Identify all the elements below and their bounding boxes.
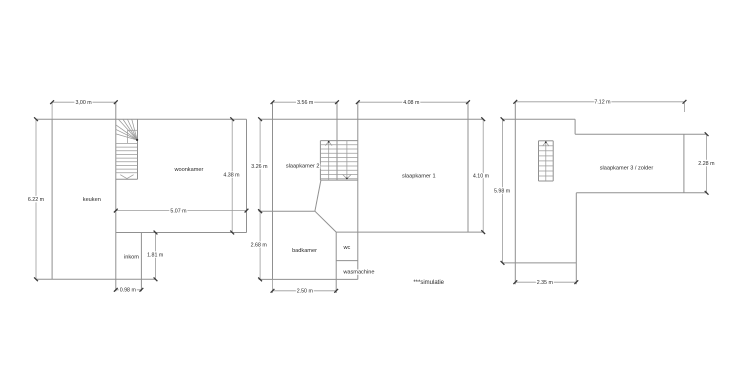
ground-floor plan: top wall — [36, 118, 247, 120]
first-floor plan: slanted stair wall — [315, 180, 321, 211]
ground-floor plan: right wall (woonkamer) — [246, 119, 248, 232]
dimension 3,00 m — [50, 100, 118, 106]
dimension 5.98 m — [494, 117, 511, 264]
svg-text:woonkamer: woonkamer — [173, 167, 203, 173]
attic plan: arm top wall — [575, 133, 707, 135]
extension line for dimension 7.12 m — [684, 103, 686, 112]
svg-text:4.08 m: 4.08 m — [403, 100, 420, 106]
svg-text:keuken: keuken — [83, 197, 101, 203]
svg-text:slaapkamer 2: slaapkamer 2 — [286, 164, 320, 170]
extension line for dimension 3,00 m — [51, 102, 53, 119]
svg-text:3.26 m: 3.26 m — [251, 164, 268, 170]
extension line for dimension 2.50 m — [272, 279, 274, 293]
first-floor plan: wc/wasmachine left wall — [335, 232, 337, 293]
attic plan: right wall — [683, 134, 685, 193]
first-floor plan: badkamer bottom wall — [259, 278, 358, 280]
first-floor plan: stairwell right wall — [357, 102, 359, 279]
first-floor plan: diagonal badkamer wall — [315, 211, 336, 232]
first-floor plan: slaapkamer2/stairwell wall — [336, 102, 338, 180]
dimension 3.26 m — [251, 117, 268, 213]
first-floor plan: wc bottom wall — [336, 260, 358, 262]
first-floor plan: slaapkamer2/badkamer wall — [259, 210, 315, 212]
dimension 1.81 m — [147, 231, 164, 282]
svg-text:5.07 m: 5.07 m — [170, 208, 187, 214]
svg-text:2.68 m: 2.68 m — [251, 243, 268, 249]
dimension 0.98 m — [114, 288, 143, 294]
svg-text:5.98 m: 5.98 m — [494, 188, 511, 194]
first-floor plan: slaapkamer 1 bottom wall — [336, 231, 483, 233]
ground-floor plan: inkom right wall — [140, 233, 142, 292]
attic plan: step wall — [574, 119, 576, 134]
first-floor plan: top wall — [260, 118, 483, 120]
ground-floor plan: keuken/woonkamer divider wall — [115, 102, 117, 291]
staircase (first floor) — [320, 141, 357, 181]
svg-text:3,00 m: 3,00 m — [75, 100, 92, 106]
attic plan: left wall — [514, 102, 516, 284]
svg-text:2.35 m: 2.35 m — [537, 280, 554, 286]
svg-text:4.10 m: 4.10 m — [473, 174, 490, 180]
ground-floor plan: keuken+inkom bottom wall — [36, 278, 156, 280]
svg-text:0.98 m: 0.98 m — [120, 288, 137, 294]
dimension 5.07 m — [114, 208, 249, 214]
dimension 4.08 m — [356, 100, 470, 106]
attic plan: top wall — [503, 118, 576, 120]
ground-floor plan: woonkamer bottom wall — [116, 232, 247, 234]
dimension 6.22 m — [28, 117, 45, 281]
attic plan: bottom wall — [503, 262, 577, 264]
svg-text:slaapkamer 3 / zolder: slaapkamer 3 / zolder — [600, 165, 654, 171]
svg-text:2.50 m: 2.50 m — [297, 289, 314, 295]
svg-text:7.12 m: 7.12 m — [594, 100, 611, 106]
svg-text:6.22 m: 6.22 m — [28, 197, 45, 203]
dimension 2.68 m — [251, 209, 268, 281]
svg-text:3.56 m: 3.56 m — [297, 100, 314, 106]
svg-text:badkamer: badkamer — [292, 248, 317, 254]
svg-text:wasmachine: wasmachine — [342, 269, 374, 275]
dimension 2.50 m — [271, 289, 339, 295]
attic plan: arm bottom wall — [576, 192, 706, 194]
dimension 3.56 m — [271, 100, 339, 106]
svg-text:1.81 m: 1.81 m — [147, 253, 164, 259]
first-floor plan: left wall — [272, 102, 274, 279]
svg-text:***simulatie: ***simulatie — [413, 280, 444, 286]
dimension 2.35 m — [513, 280, 578, 286]
dimension 4.38 m — [223, 117, 240, 234]
svg-text:wc: wc — [342, 245, 350, 251]
first-floor plan: right wall (slaapkamer 1) — [467, 102, 469, 232]
svg-text:2.28 m: 2.28 m — [698, 161, 715, 167]
attic plan: step wall 2 — [575, 193, 577, 284]
staircase (attic) — [539, 141, 554, 181]
dimension 4.10 m — [473, 117, 490, 234]
staircase (ground floor, winder stairs) — [116, 119, 138, 179]
svg-text:slaapkamer 1: slaapkamer 1 — [402, 173, 436, 179]
dimension 2.28 m — [698, 132, 715, 194]
svg-text:inkom: inkom — [124, 254, 139, 260]
ground-floor plan: left wall (keuken) — [51, 119, 53, 279]
dimension 7.12 m — [513, 100, 686, 106]
svg-text:4.38 m: 4.38 m — [223, 172, 240, 178]
